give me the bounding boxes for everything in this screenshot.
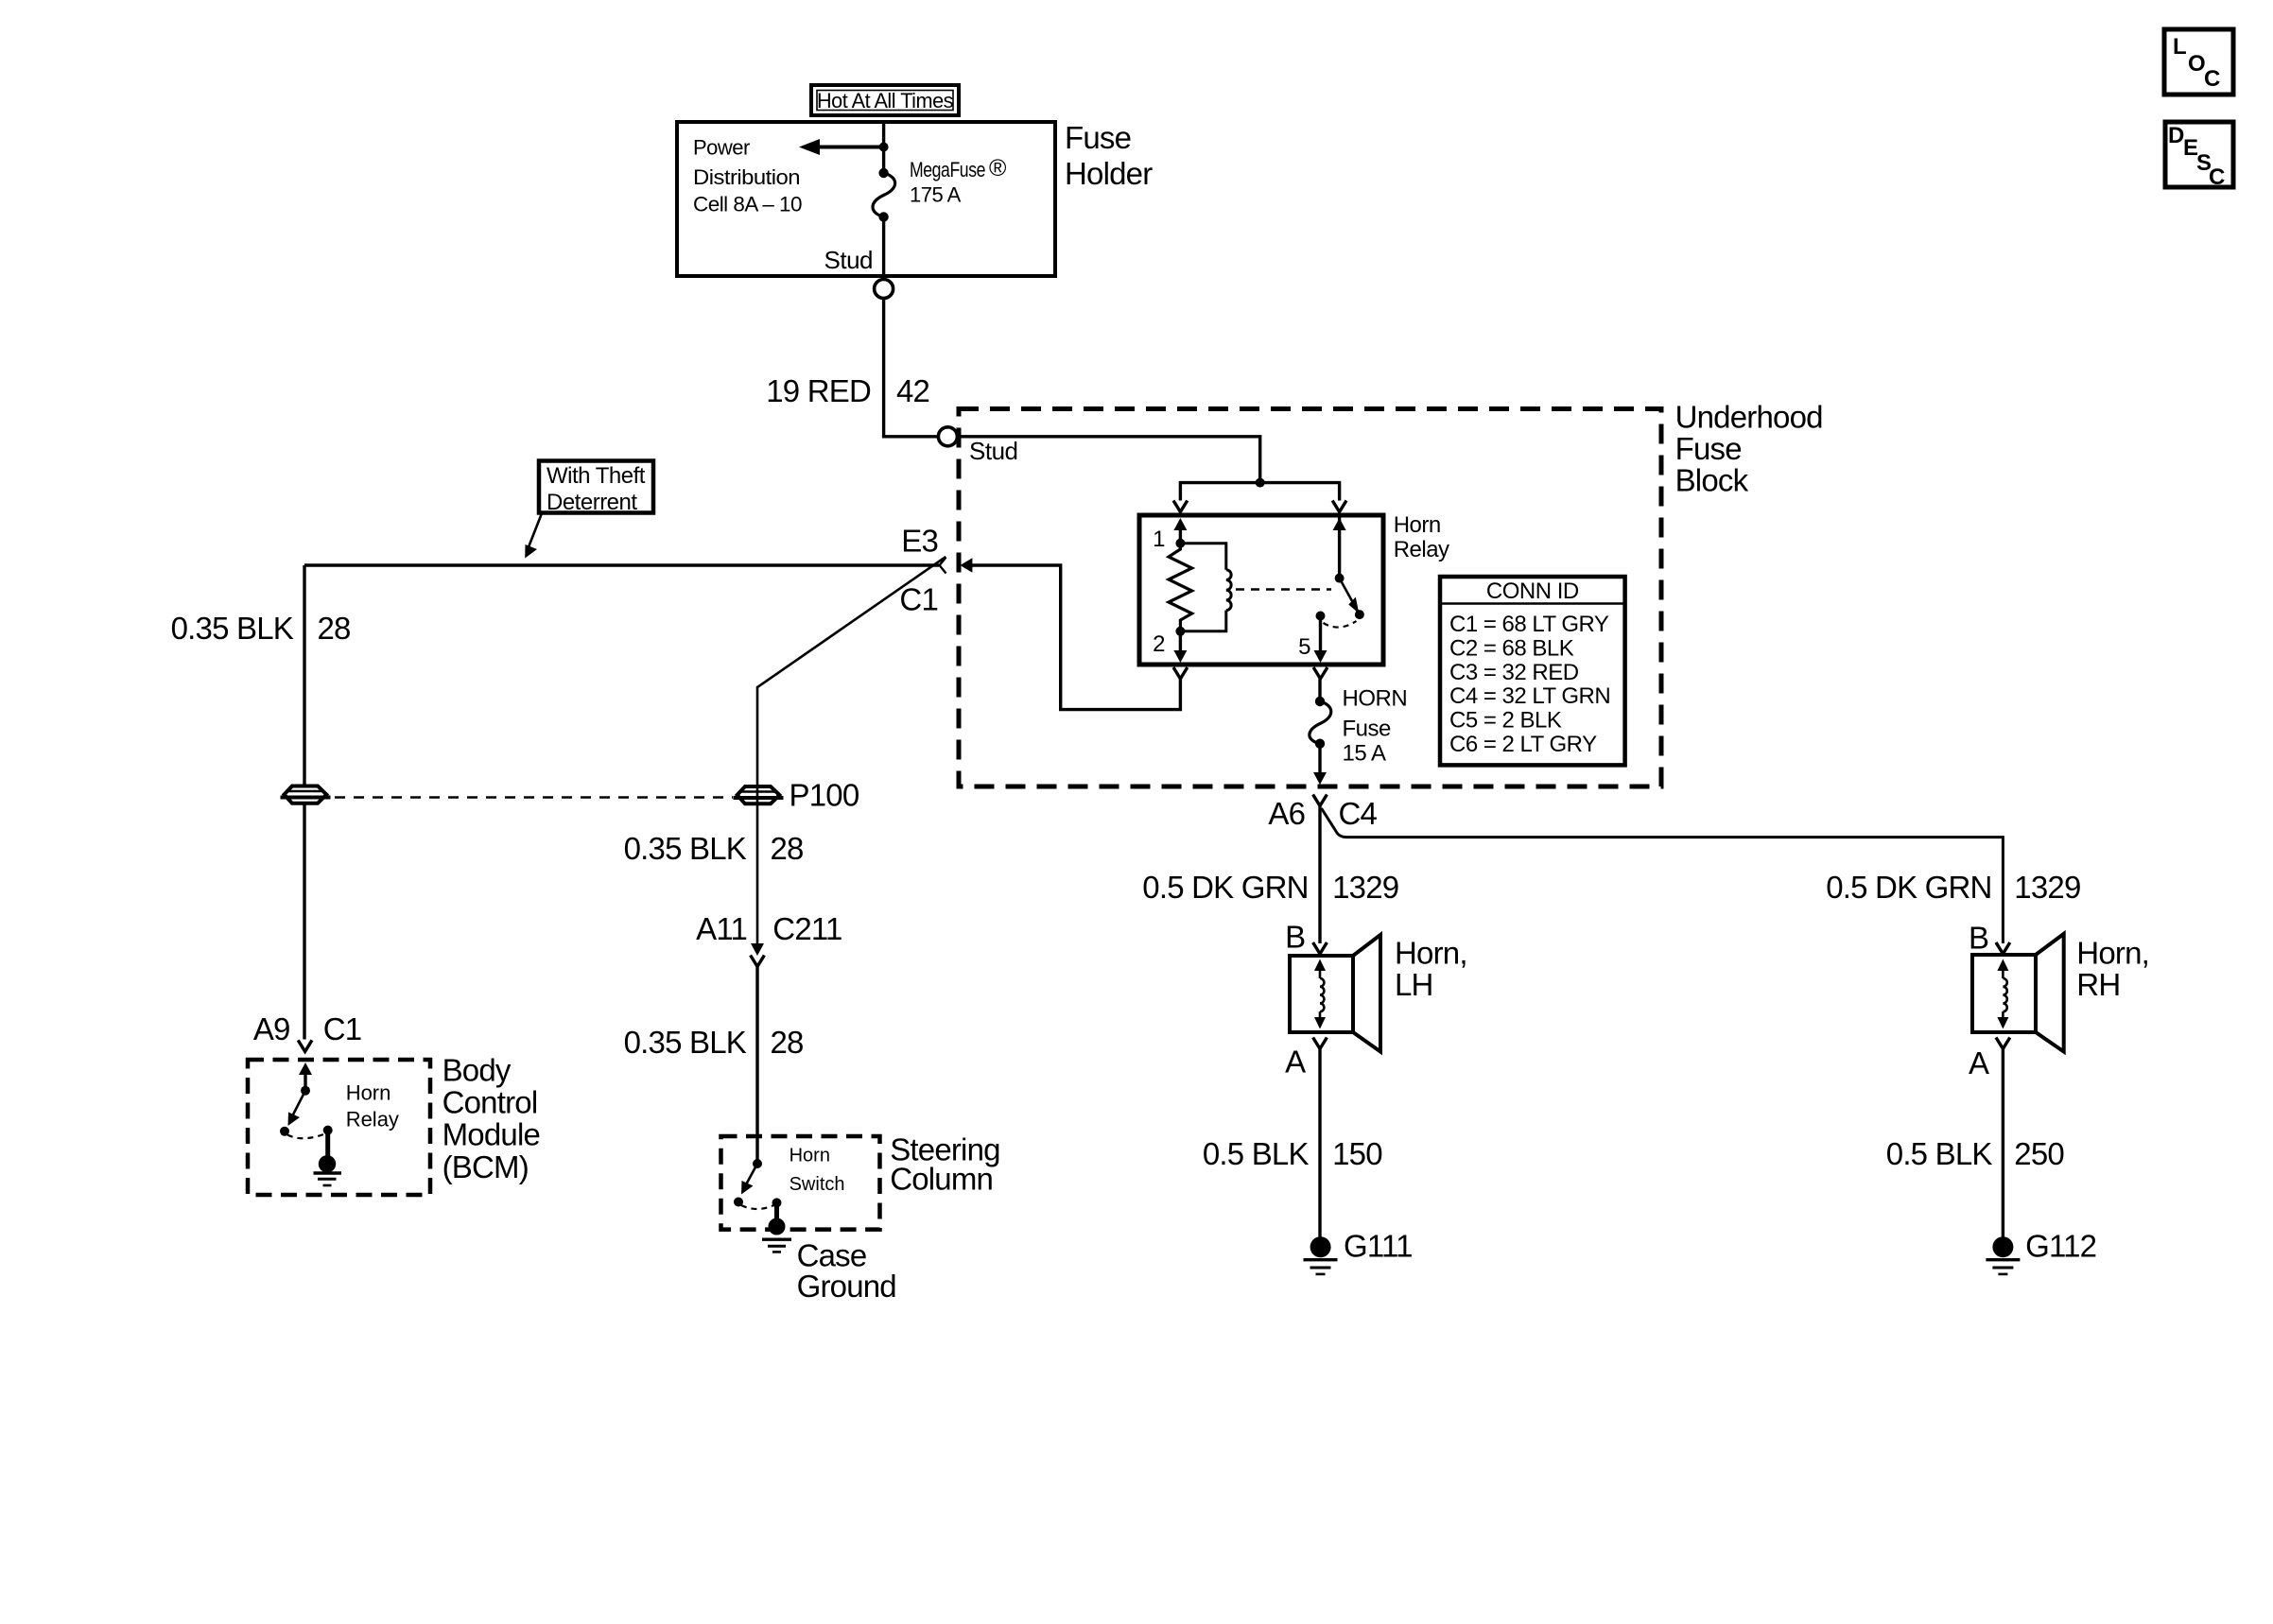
svg-text:28: 28	[771, 1025, 804, 1060]
relay pin 5	[1298, 612, 1327, 664]
CONN ID table	[1440, 577, 1625, 765]
wire: megafuse to stud	[882, 217, 885, 280]
label: 19 RED | 42	[766, 373, 929, 408]
wire: 0.35 BLK 28 to horn switch	[755, 967, 758, 1165]
svg-text:Ground: Ground	[797, 1269, 896, 1304]
svg-text:250: 250	[2014, 1136, 2064, 1171]
inline connector P100 left half	[281, 786, 331, 803]
underhood fuse block dashed box	[959, 409, 1661, 787]
svg-text:Stud: Stud	[824, 246, 874, 274]
horn relay box	[1139, 515, 1383, 665]
connector chevron relay pin 1	[1173, 501, 1188, 512]
wire: 0.5 DK GRN 1329 to horn LH	[1318, 806, 1321, 944]
svg-text:Stud: Stud	[969, 437, 1018, 465]
DESC icon	[2165, 122, 2233, 190]
connector chevron horn LH pin A	[1313, 1038, 1327, 1049]
svg-text:150: 150	[1332, 1136, 1382, 1171]
BCM horn relay switch	[280, 1063, 336, 1173]
label: Horn Relay (BCM)	[346, 1081, 399, 1132]
svg-text:Fuse: Fuse	[1675, 431, 1742, 466]
svg-text:E3: E3	[901, 524, 938, 559]
svg-text:Holder: Holder	[1065, 156, 1153, 191]
svg-text:A: A	[1285, 1045, 1306, 1080]
arrowhead at fuse block edge (points down)	[1313, 772, 1327, 785]
connector chevron BCM A9	[298, 1040, 312, 1051]
svg-text:Case: Case	[797, 1237, 867, 1272]
svg-text:C: C	[2209, 164, 2225, 190]
label: A11 | C211	[696, 911, 842, 946]
svg-text:19 RED: 19 RED	[766, 373, 871, 408]
svg-text:Distribution: Distribution	[693, 165, 800, 189]
ground G111	[1304, 1236, 1338, 1274]
wire: C4 branch to horn RH	[1322, 808, 2004, 943]
svg-text:G112: G112	[2025, 1228, 2096, 1263]
connector A6/C4 chevron	[1313, 795, 1327, 806]
horn RH	[1972, 934, 2064, 1052]
svg-text:CONN ID: CONN ID	[1486, 579, 1579, 604]
svg-text:1329: 1329	[1332, 870, 1398, 905]
svg-text:O: O	[2188, 51, 2205, 77]
relay coil	[1180, 544, 1231, 631]
svg-text:A9: A9	[253, 1011, 290, 1046]
relay pin 2	[1153, 627, 1187, 663]
svg-text:Horn: Horn	[346, 1081, 391, 1105]
svg-text:®: ®	[989, 155, 1007, 181]
svg-text:C211: C211	[772, 911, 842, 946]
label: 0.35 BLK | 28 (left)	[171, 611, 351, 646]
wire: battery feed inside fuse holder	[882, 122, 885, 173]
arrow from With Theft Deterrent to wire	[525, 513, 542, 559]
fuse holder box	[677, 122, 1055, 276]
connector chevron relay pin 2	[1173, 667, 1188, 679]
connector chevron horn LH pin B	[1313, 942, 1327, 954]
svg-text:0.35 BLK: 0.35 BLK	[624, 831, 747, 866]
connector chevron relay pin 3	[1332, 501, 1346, 512]
svg-text:P100: P100	[789, 778, 859, 813]
horn fuse 15 A	[1310, 679, 1331, 749]
svg-text:C2 = 68 BLK: C2 = 68 BLK	[1449, 635, 1574, 661]
label: 0.5 DK GRN | 1329 (LH)	[1142, 870, 1398, 905]
svg-text:HORN: HORN	[1343, 686, 1408, 712]
junction dot at arrow	[879, 143, 889, 152]
svg-text:G111: G111	[1344, 1228, 1413, 1263]
label: Case Ground	[797, 1237, 896, 1304]
svg-text:Relay: Relay	[346, 1107, 399, 1131]
connector C211 arrow and chevron	[751, 943, 765, 967]
svg-text:C5 = 2 BLK: C5 = 2 BLK	[1449, 708, 1562, 734]
P100 pass-through dashed link	[335, 796, 733, 799]
svg-text:Block: Block	[1675, 462, 1749, 497]
svg-text:C1: C1	[323, 1011, 362, 1046]
svg-text:0.35 BLK: 0.35 BLK	[624, 1025, 747, 1060]
label: Horn Switch	[789, 1145, 845, 1195]
svg-text:Horn: Horn	[789, 1145, 830, 1166]
svg-text:B: B	[1285, 919, 1305, 954]
junction dot relay feed	[1256, 478, 1265, 488]
svg-text:RH: RH	[2076, 967, 2120, 1002]
label: A9 | C1	[253, 1011, 361, 1046]
svg-text:L: L	[2173, 34, 2186, 60]
svg-text:Control: Control	[442, 1084, 538, 1119]
inline connector P100 right half	[734, 786, 784, 803]
BCM ground symbol	[314, 1173, 342, 1185]
svg-text:C6 = 2 LT GRY: C6 = 2 LT GRY	[1449, 732, 1597, 757]
stud terminal (fuse block)	[938, 427, 957, 446]
arrow to Power Distribution cell	[799, 139, 884, 155]
relay pin 1	[1153, 518, 1187, 552]
wire: horn fuse output through fuse block edge	[1318, 744, 1321, 780]
svg-text:With Theft: With Theft	[547, 463, 646, 489]
label: A6 | C4	[1268, 796, 1377, 831]
label: Horn, LH	[1395, 935, 1467, 1002]
svg-text:Hot At All Times: Hot At All Times	[817, 89, 953, 112]
wire: with theft deterrent branch	[304, 563, 939, 566]
label: Horn, RH	[2076, 935, 2149, 1002]
svg-text:0.5 BLK: 0.5 BLK	[1886, 1136, 1993, 1171]
svg-text:Horn,: Horn,	[1395, 935, 1467, 970]
label: 0.5 BLK | 250	[1886, 1136, 2065, 1171]
svg-text:1329: 1329	[2014, 870, 2080, 905]
svg-text:D: D	[2168, 123, 2184, 148]
wire: relay feed split bar	[1180, 483, 1339, 501]
label box: Hot At All Times	[811, 85, 959, 115]
svg-text:0.5 DK GRN: 0.5 DK GRN	[1826, 870, 1991, 905]
svg-text:15 A: 15 A	[1343, 740, 1387, 766]
svg-text:A: A	[1969, 1045, 1989, 1080]
svg-text:C4 = 32 LT GRN: C4 = 32 LT GRN	[1449, 683, 1610, 709]
label: 0.5 BLK | 150	[1203, 1136, 1382, 1171]
svg-text:Switch: Switch	[789, 1174, 845, 1195]
svg-text:Column: Column	[890, 1161, 993, 1196]
svg-text:Fuse: Fuse	[1065, 120, 1131, 155]
label: 0.35 BLK | 28 (below C211)	[624, 1025, 804, 1060]
svg-text:Power: Power	[693, 136, 750, 160]
label box: With Theft Deterrent	[539, 461, 653, 516]
ground G112	[1986, 1236, 2020, 1274]
svg-text:A11: A11	[696, 911, 747, 946]
svg-text:Horn,: Horn,	[2076, 935, 2149, 970]
svg-text:Relay: Relay	[1394, 537, 1449, 562]
svg-text:LH: LH	[1395, 967, 1433, 1002]
label: Steering Column	[890, 1132, 1000, 1197]
steering column dashed box	[721, 1136, 880, 1230]
stud terminal (fuse holder)	[875, 280, 894, 299]
label: Horn Relay	[1394, 512, 1449, 562]
horn LH	[1290, 935, 1380, 1052]
connector chevron horn RH pin A	[1996, 1038, 2010, 1049]
connector chevron horn RH pin B	[1996, 942, 2010, 954]
svg-text:C3 = 32 RED: C3 = 32 RED	[1449, 660, 1579, 685]
label: 0.35 BLK | 28 (above C211)	[624, 831, 804, 866]
wire: 19 RED 42 to fuse block	[884, 299, 1260, 483]
arrowhead at E3 (points left)	[960, 558, 972, 573]
wire: 0.35 BLK 28 left drop	[303, 565, 305, 1040]
svg-text:C4: C4	[1339, 796, 1378, 831]
wire: 0.5 BLK 250 to ground	[2002, 1049, 2004, 1238]
relay switch travel arc	[1324, 621, 1357, 628]
svg-text:B: B	[1969, 921, 1988, 956]
svg-text:Module: Module	[442, 1116, 540, 1151]
megafuse 175 A	[873, 168, 895, 222]
svg-text:0.35 BLK: 0.35 BLK	[171, 611, 294, 646]
case ground symbol	[762, 1239, 791, 1252]
label: HORN Fuse 15 A	[1343, 686, 1408, 767]
LOC icon	[2164, 29, 2233, 95]
svg-text:A6: A6	[1268, 796, 1305, 831]
label: Underhood Fuse Block	[1675, 399, 1823, 497]
svg-text:Cell 8A – 10: Cell 8A – 10	[693, 193, 802, 216]
svg-text:175 A: 175 A	[910, 183, 962, 207]
svg-text:Body: Body	[442, 1052, 512, 1087]
svg-text:MegaFuse: MegaFuse	[910, 158, 985, 181]
BCM dashed box	[248, 1060, 430, 1195]
svg-text:28: 28	[318, 611, 351, 646]
relay resistor	[1169, 544, 1192, 631]
relay actuation dashed line	[1236, 588, 1331, 591]
label: 0.5 DK GRN | 1329 (RH)	[1826, 870, 2080, 905]
wire: 0.5 BLK 150 to ground	[1318, 1049, 1321, 1238]
svg-text:C1 = 68 LT GRY: C1 = 68 LT GRY	[1449, 612, 1609, 637]
wire: relay pin 2 to connector E3	[970, 565, 1180, 710]
svg-text:Deterrent: Deterrent	[547, 490, 637, 515]
relay pin 3 switch arm	[1333, 515, 1364, 619]
connector chevron relay pin 5	[1313, 667, 1327, 679]
svg-text:0.5 DK GRN: 0.5 DK GRN	[1142, 870, 1308, 905]
label: Body Control Module (BCM)	[442, 1052, 540, 1184]
svg-text:0.5 BLK: 0.5 BLK	[1203, 1136, 1310, 1171]
svg-text:2: 2	[1153, 631, 1165, 657]
svg-text:1: 1	[1153, 527, 1165, 552]
label: Power Distribution Cell 8A-10	[693, 136, 802, 216]
svg-text:42: 42	[896, 373, 929, 408]
svg-text:(BCM): (BCM)	[442, 1149, 529, 1184]
svg-text:C: C	[2204, 66, 2220, 92]
label: MegaFuse (R) 175 A	[910, 155, 1007, 207]
wire: C1 diagonal steering branch	[757, 557, 946, 945]
svg-text:Fuse: Fuse	[1343, 717, 1392, 742]
connector E3/C1 chevron	[940, 558, 946, 574]
svg-text:5: 5	[1298, 634, 1310, 660]
horn switch	[734, 1159, 786, 1235]
svg-text:C1: C1	[899, 582, 938, 617]
svg-text:28: 28	[771, 831, 804, 866]
svg-text:Underhood: Underhood	[1675, 399, 1823, 434]
label: Fuse Holder	[1065, 120, 1153, 191]
svg-text:Horn: Horn	[1394, 512, 1441, 538]
